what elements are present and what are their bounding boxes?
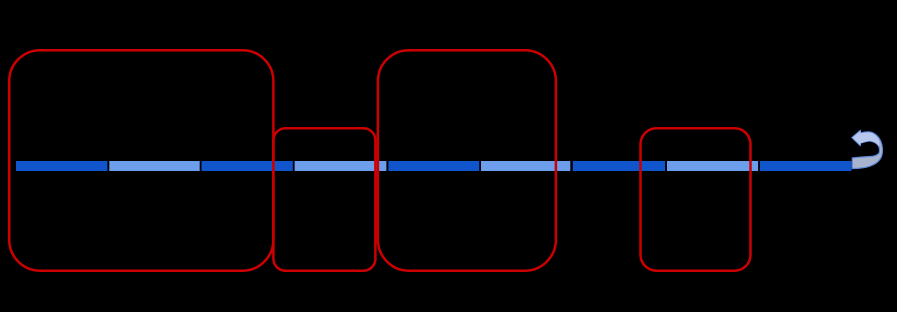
segment 5 (dark blue): [388, 161, 479, 171]
segment 9 (dark blue): [760, 161, 852, 171]
segment 2 (light blue): [109, 161, 199, 171]
segment 1 (dark blue): [16, 161, 107, 171]
segment 6 (light blue): [481, 161, 570, 171]
segment 4 (light blue): [295, 161, 387, 171]
segment 3 (dark blue): [202, 161, 293, 171]
red region box R3 (large, middle): [378, 50, 556, 271]
red region box R4 (small, right): [641, 128, 751, 270]
loop-back arrow at right end: [852, 130, 883, 168]
red region box R2 (small): [273, 128, 375, 270]
segment 8 (light blue): [667, 161, 758, 171]
red region box R1 (large, left): [9, 50, 273, 271]
arrow head and top-band highlight: [853, 131, 880, 146]
segment 7 (dark blue): [573, 161, 665, 171]
